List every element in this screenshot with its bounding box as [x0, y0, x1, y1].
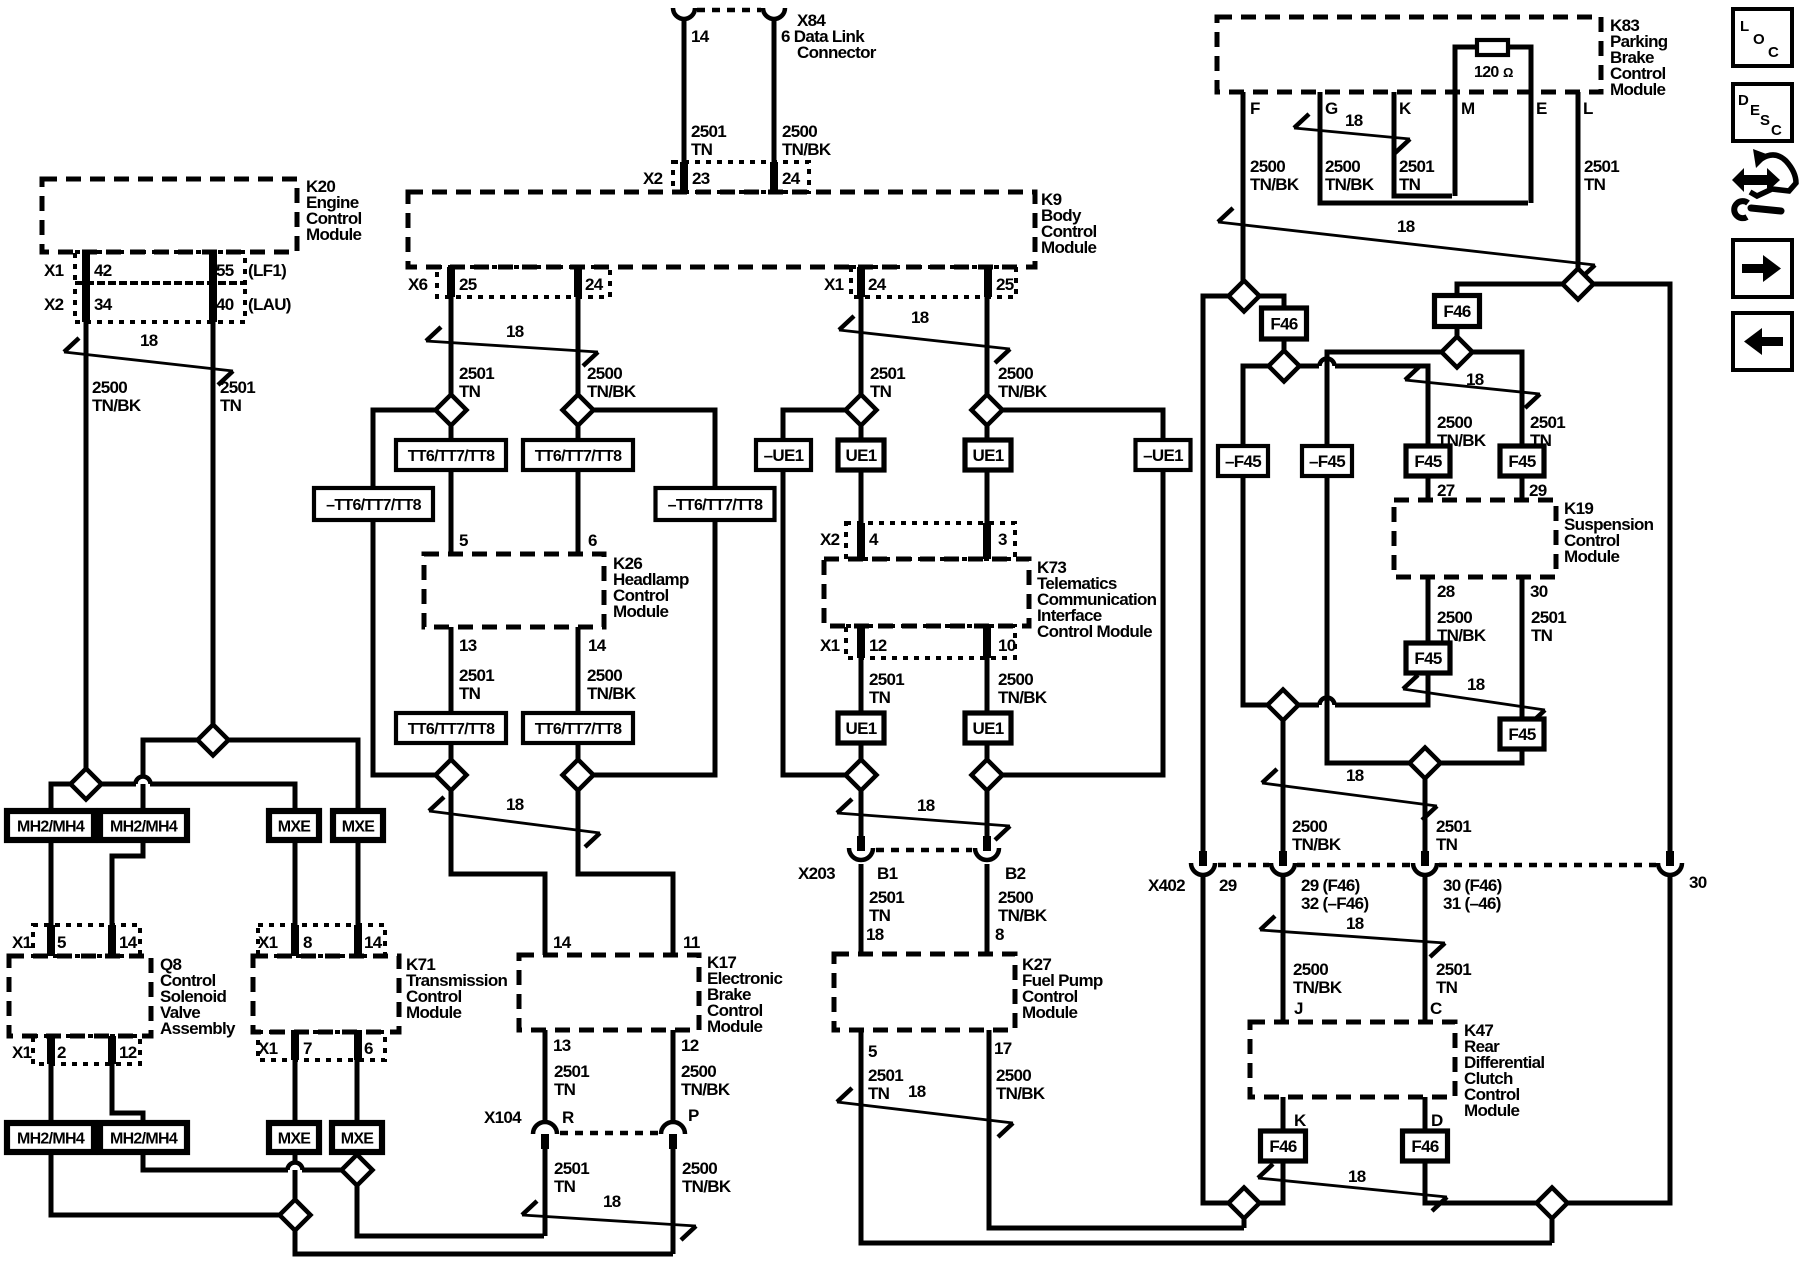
svg-text:12: 12	[681, 1036, 699, 1055]
wire 2500 TN/BK K83-F to splice T1	[1241, 92, 1246, 281]
svg-text:F45: F45	[1414, 649, 1441, 668]
wire T3 right to F45 box4	[1472, 352, 1522, 446]
wire F46 to T8	[1259, 1160, 1283, 1203]
svg-text:25: 25	[996, 275, 1014, 294]
X84 connector dashed link	[697, 8, 761, 13]
connector code MH2/MH4 (1)	[7, 811, 94, 840]
wire K83-K to M jog	[1394, 92, 1452, 196]
svg-text:18: 18	[506, 322, 524, 341]
svg-text:F46: F46	[1411, 1137, 1438, 1156]
svg-text:30: 30	[1530, 582, 1548, 601]
wire K71-7 to MXE lower1	[293, 1060, 298, 1123]
wire X104-R to bus A	[543, 1149, 548, 1236]
wire X402 to K47-J	[1281, 877, 1286, 1022]
wire MXE2 to K71 pin 14	[356, 840, 361, 956]
wire X203-B2 to K27-8	[985, 864, 990, 954]
svg-text:28: 28	[1437, 582, 1455, 601]
pin tick 34	[82, 283, 90, 322]
svg-text:TT6/TT7/TT8: TT6/TT7/TT8	[408, 448, 495, 465]
wire gauge 18 slash K83 F-L	[1218, 222, 1595, 265]
wire 2500 TN/BK from K20 X1-42	[84, 322, 89, 769]
connector code F46 (3l)	[1261, 1131, 1306, 1161]
connector code F45 (3)	[1406, 643, 1450, 673]
X203 connector dashed link	[876, 848, 972, 853]
wire 2501 TN K26-13	[449, 627, 454, 714]
connector code F45 (1)	[1406, 446, 1450, 476]
svg-text:TT6/TT7/TT8: TT6/TT7/TT8	[535, 721, 622, 738]
svg-text:10: 10	[998, 636, 1016, 655]
K9 connector X1 pin box	[851, 267, 1016, 297]
wire gauge 18 slash K47 lower	[1258, 1178, 1447, 1197]
svg-text:X1: X1	[44, 261, 64, 280]
svg-text:D: D	[1738, 92, 1749, 109]
svg-text:F: F	[1250, 99, 1260, 118]
svg-text:30: 30	[1689, 873, 1707, 892]
svg-text:12: 12	[119, 1043, 137, 1062]
svg-text:55: 55	[216, 261, 234, 280]
svg-text:23: 23	[692, 169, 710, 188]
module K26 Headlamp Control Module	[424, 554, 604, 627]
wire splice branch left TT loop	[373, 410, 435, 489]
wire -F45 box2 to T5	[1327, 474, 1410, 763]
svg-text:40: 40	[216, 295, 234, 314]
svg-text:X2: X2	[44, 295, 64, 314]
svg-text:L: L	[1740, 18, 1749, 35]
wire hop at (1327,705)	[1320, 698, 1335, 705]
inline connector X402-30	[1666, 851, 1674, 866]
pin tick 2	[47, 1036, 55, 1064]
wire gauge 18 slash F45 lower	[1403, 689, 1545, 710]
connector code MH2/MH4 (4)	[100, 1123, 187, 1152]
svg-text:Connector: Connector	[797, 43, 877, 62]
connector code UE1 (2)	[965, 440, 1011, 470]
wire TT6 box to K26 pin 6	[576, 470, 581, 554]
wire UE splice left loop	[783, 410, 845, 440]
splice diamond 2501 TN UE upper	[846, 395, 877, 426]
svg-text:18: 18	[911, 308, 929, 327]
svg-text:18: 18	[1348, 1167, 1366, 1186]
splice diamond 2501 TN UE lower	[846, 760, 877, 791]
connector code MXE (2)	[333, 811, 383, 840]
Q8 bottom pin box	[33, 1036, 140, 1064]
wire D8 to X203-B2	[985, 790, 990, 838]
wire T3 left to -F45 box2	[1327, 352, 1442, 446]
svg-text:UE1: UE1	[973, 446, 1004, 465]
wire D3 to K17 pin 14	[451, 790, 545, 955]
connector code TT6/TT7/TT8 (4)	[523, 713, 633, 743]
wire UE1 to K73 X2-4	[859, 470, 864, 559]
wire F46 box2 to T3	[1455, 324, 1460, 337]
svg-text:X1: X1	[258, 933, 278, 952]
splice diamond 2501 TN A	[198, 725, 229, 756]
pin tick 4	[857, 523, 865, 559]
connector code F45 (2)	[1500, 446, 1544, 476]
wire MH2 box1 to Q8 pin 5	[49, 840, 54, 956]
module K17 Electronic Brake Control Module	[519, 955, 699, 1030]
wire splice D to bus A	[357, 1185, 544, 1236]
svg-text:F45: F45	[1508, 452, 1535, 471]
pin tick 42	[82, 252, 90, 283]
svg-text:–F45: –F45	[1309, 452, 1345, 471]
pin tick 14	[108, 925, 116, 956]
splice diamond 2500 TN/BK UE lower	[972, 760, 1003, 791]
wire F46 to T9	[1425, 1160, 1537, 1203]
wire T2 right to F45 box3 part1	[1299, 364, 1319, 369]
splice diamond T5	[1410, 748, 1441, 779]
module K83 Parking Brake Control Module	[1217, 17, 1601, 92]
wire 2501 TN K19-30	[1520, 577, 1525, 720]
module K19 Suspension Control Module	[1394, 500, 1556, 577]
wire F46 box1 to T2	[1282, 337, 1287, 351]
wire T5 to X402	[1423, 778, 1428, 851]
svg-text:11: 11	[683, 933, 700, 952]
connector code F46 (1)	[1262, 308, 1307, 339]
wire F45 box5 to T6 part1	[1335, 672, 1428, 705]
K71 bottom pin box	[258, 1032, 385, 1060]
wire splice B right to MXE1 part1	[101, 782, 136, 787]
svg-text:E: E	[1536, 99, 1547, 118]
svg-text:B2: B2	[1005, 864, 1026, 883]
wire 2501 TN from K20-55	[211, 322, 216, 725]
svg-text:120: 120	[1474, 64, 1499, 81]
svg-text:18: 18	[866, 925, 884, 944]
pin tick 7	[291, 1032, 299, 1060]
pin tick 12	[108, 1036, 116, 1064]
svg-text:E: E	[1750, 102, 1760, 119]
pin tick 55	[209, 252, 217, 283]
svg-text:29: 29	[1219, 876, 1237, 895]
svg-text:(LF1): (LF1)	[248, 261, 286, 280]
wire gauge 18 slash X402-K47	[1260, 930, 1445, 943]
svg-text:MXE: MXE	[278, 1131, 312, 1148]
svg-text:C: C	[1768, 44, 1779, 61]
wire 2501 TN K83-L to splice T4	[1576, 92, 1581, 269]
inline connector X402 29(F46)	[1279, 851, 1287, 866]
X402 connector dashed link	[1218, 863, 1656, 868]
connector code F45 (4)	[1500, 719, 1544, 749]
svg-text:MH2/MH4: MH2/MH4	[110, 1131, 178, 1148]
svg-text:–UE1: –UE1	[764, 446, 804, 465]
connector code MH2/MH4 (2)	[100, 811, 187, 840]
pin tick X1-24	[857, 267, 865, 297]
wire MH2 lower2 to splice D part2	[302, 1168, 342, 1173]
wire T8 to bus C	[1242, 1218, 1247, 1228]
svg-text:L: L	[1583, 99, 1593, 118]
inline connector X104-R	[533, 1122, 557, 1134]
svg-text:TT6/TT7/TT8: TT6/TT7/TT8	[535, 448, 622, 465]
svg-text:D: D	[1431, 1111, 1443, 1130]
K73 connector X1 pin box	[846, 626, 1015, 658]
connector code MH2/MH4 (3)	[7, 1123, 94, 1152]
pin tick 25	[447, 267, 455, 297]
pin tick 10	[983, 626, 991, 658]
wire T2 right to F45 box3 part2	[1335, 366, 1428, 446]
svg-text:5: 5	[459, 531, 468, 550]
svg-text:24: 24	[782, 169, 801, 188]
wire 2501 TN from X84-14 to K9 X2-23	[682, 18, 687, 194]
wire splice A right branch	[228, 740, 358, 811]
svg-text:X104: X104	[484, 1108, 522, 1127]
svg-text:18: 18	[1466, 370, 1484, 389]
svg-text:–TT6/TT7/TT8: –TT6/TT7/TT8	[668, 497, 764, 514]
svg-text:5: 5	[57, 933, 66, 952]
connector code -F45 (2)	[1302, 446, 1352, 476]
wire splice B left branch	[51, 784, 71, 811]
svg-text:C: C	[1430, 999, 1442, 1018]
wire D6 to UE1 box	[985, 410, 990, 440]
splice diamond T3	[1442, 337, 1473, 368]
svg-text:–UE1: –UE1	[1143, 446, 1183, 465]
connector code TT6/TT7/TT8 (3)	[396, 713, 506, 743]
wire MH2 lower1 to splice C	[51, 1152, 280, 1215]
connector X84 arc pin 6	[763, 8, 785, 19]
svg-text:4: 4	[869, 530, 879, 549]
wire splice B right to MXE1 part2	[150, 784, 295, 811]
splice diamond 2500 TN/BK B	[71, 769, 102, 800]
wire gauge 18 slash X1	[839, 330, 1010, 349]
wire gauge 18 slash K20	[64, 352, 233, 371]
svg-text:–TT6/TT7/TT8: –TT6/TT7/TT8	[326, 497, 422, 514]
svg-text:–F45: –F45	[1225, 452, 1261, 471]
wire TT6 box to K26 pin 5	[449, 470, 454, 554]
svg-text:14: 14	[364, 933, 383, 952]
svg-text:18: 18	[506, 795, 524, 814]
wire MXE lower2 to splice D	[355, 1152, 360, 1156]
svg-text:14: 14	[588, 636, 607, 655]
splice diamond T2	[1269, 351, 1300, 382]
wire gauge 18 slash TT lower	[429, 811, 600, 833]
inline connector X203-B1	[857, 836, 865, 851]
wire 2500 TN/BK K26-14	[576, 627, 581, 714]
wire gauge 18 slash UE lower	[837, 813, 1010, 826]
wire hop at (295,1170)	[288, 1163, 303, 1170]
wire X402 to K47-C	[1423, 877, 1428, 1022]
splice diamond T6	[1268, 690, 1299, 721]
wire T6 to X402	[1281, 720, 1286, 851]
wire -F45 box1 to T6	[1243, 474, 1268, 705]
pin tick 24	[770, 162, 778, 192]
X104 connector dashed link	[560, 1131, 659, 1136]
wire MH2 box2 to Q8 pin 14	[112, 840, 143, 956]
svg-text:24: 24	[585, 275, 604, 294]
svg-text:18: 18	[1346, 766, 1364, 785]
svg-text:UE1: UE1	[973, 719, 1004, 738]
wire TT box to D3	[449, 742, 454, 775]
wire right TT loop lower	[594, 517, 715, 775]
svg-text:UE1: UE1	[846, 719, 877, 738]
connector code F46 (2)	[1435, 296, 1480, 327]
svg-text:18: 18	[1467, 675, 1485, 694]
pin tick 12	[857, 626, 865, 658]
K9 connector X6 pin box	[437, 267, 610, 297]
wire 2500 TN/BK from K9 X1-25	[985, 297, 990, 395]
svg-text:29 (F46)32 (–F46): 29 (F46)32 (–F46)	[1301, 876, 1368, 913]
splice diamond 2500 TN/BK C	[280, 1200, 311, 1231]
svg-text:14: 14	[691, 27, 710, 46]
pin tick X6-24	[574, 267, 582, 297]
wire T1 right to F46 box1	[1259, 296, 1284, 309]
wire 2501 TN K27-5 to bus	[861, 1030, 1552, 1243]
svg-text:K: K	[1399, 99, 1412, 118]
connector X84 arc pin 14	[673, 8, 695, 19]
svg-text:18: 18	[1397, 217, 1415, 236]
wire MXE1 to K71 pin 8	[293, 840, 298, 956]
svg-text:6: 6	[364, 1039, 373, 1058]
wire K47-K to F46 box	[1281, 1097, 1286, 1132]
wire Q8-12 to MH2 lower2	[112, 1064, 143, 1123]
svg-text:6: 6	[588, 531, 597, 550]
splice diamond 2501 TN D	[342, 1155, 373, 1186]
wire 2500 TN/BK K19-28	[1426, 577, 1431, 644]
connector code MXE (3)	[269, 1123, 319, 1152]
splice diamond 2500 TN/BK UE upper	[972, 395, 1003, 426]
svg-text:X1: X1	[258, 1039, 278, 1058]
wire F45 box4 to K19-29	[1520, 476, 1525, 500]
svg-text:MH2/MH4: MH2/MH4	[17, 819, 85, 836]
wire gauge 18 slash K27	[837, 1102, 1013, 1123]
wire UE1 to D7	[859, 742, 864, 775]
module Q8 Control Solenoid Valve Assembly	[9, 956, 151, 1036]
svg-text:F46: F46	[1443, 302, 1470, 321]
K20 pin row X1	[75, 252, 245, 283]
legend box LOC	[1733, 9, 1792, 66]
connector code TT6/TT7/TT8 (2)	[523, 440, 633, 470]
connector code -F45 (1)	[1218, 446, 1268, 476]
wire UE1 to D8	[985, 742, 990, 775]
svg-text:MXE: MXE	[342, 819, 376, 836]
splice diamond T9	[1537, 1188, 1568, 1219]
splice diamond 2500 TN/BK lower-TT	[563, 760, 594, 791]
legend box DESC	[1733, 84, 1792, 141]
wire K83-G to E jog	[1320, 92, 1528, 203]
pin tick 5	[47, 925, 55, 956]
inline connector X402 30(F46)	[1421, 851, 1429, 866]
wire K47-D to F46 box	[1423, 1097, 1428, 1132]
pin tick 6	[354, 1032, 362, 1060]
wire hop at (1327,366)	[1320, 359, 1335, 366]
svg-text:X6: X6	[408, 275, 428, 294]
wire hop at (143,784)	[136, 777, 151, 784]
connector code -UE1 right	[1136, 440, 1191, 470]
svg-text:X2: X2	[820, 530, 840, 549]
connector code UE1 (3)	[838, 713, 884, 743]
wire T2 left to -F45 box1	[1243, 366, 1269, 446]
connector code UE1 (4)	[965, 713, 1011, 743]
resistor 120 ohm	[1477, 40, 1508, 55]
wire MXE lower1 to splice C	[293, 1152, 298, 1200]
wire splice A left branch	[143, 740, 198, 811]
svg-text:P: P	[688, 1106, 699, 1125]
wire 2500 TN/BK K73-10	[985, 658, 990, 714]
wire X203-B1 to K27-18	[859, 864, 864, 954]
splice diamond T8	[1229, 1188, 1260, 1219]
K73 connector X2 pin box	[846, 523, 1015, 559]
pin tick 14	[354, 925, 362, 956]
K71 top pin box	[258, 925, 385, 956]
svg-text:34: 34	[94, 295, 113, 314]
splice diamond 2500 TN/BK upper-TT	[563, 395, 594, 426]
svg-text:14: 14	[119, 933, 138, 952]
svg-text:MH2/MH4: MH2/MH4	[110, 819, 178, 836]
svg-text:F46: F46	[1270, 315, 1297, 334]
module K9 Body Control Module	[408, 192, 1035, 267]
connector code -UE1 left	[756, 440, 811, 470]
module K73 Telematics Communication Interface Control Module	[824, 559, 1029, 626]
connector code -TT6/TT7/TT8 right	[656, 488, 775, 520]
svg-text:X1: X1	[820, 636, 840, 655]
inline connector X203-B2	[983, 836, 991, 851]
module K71 Transmission Control Module	[253, 956, 399, 1032]
svg-text:2: 2	[57, 1043, 66, 1062]
svg-text:MH2/MH4: MH2/MH4	[17, 1131, 85, 1148]
connector code TT6/TT7/TT8 (1)	[396, 440, 506, 470]
Q8 top pin box	[33, 925, 140, 956]
svg-text:30 (F46)31 (–46): 30 (F46)31 (–46)	[1443, 876, 1502, 913]
K9 connector X2 pin box	[673, 162, 809, 192]
wire splice branch right TT loop	[594, 410, 715, 489]
wire 2500 TN/BK K27-17 to bus	[989, 1030, 1244, 1228]
wire 2501 TN from K9 X6-25	[449, 297, 454, 395]
svg-text:17: 17	[994, 1039, 1012, 1058]
svg-text:24: 24	[868, 275, 887, 294]
svg-text:18: 18	[140, 331, 158, 350]
svg-text:F45: F45	[1508, 725, 1535, 744]
splice diamond T4	[1563, 269, 1594, 300]
svg-text:MXE: MXE	[278, 819, 312, 836]
svg-text:R: R	[562, 1108, 574, 1127]
svg-text:5: 5	[868, 1042, 877, 1061]
svg-text:8: 8	[303, 933, 312, 952]
wire Q8-2 to MH2 lower1	[49, 1064, 54, 1123]
pin tick 3	[983, 523, 991, 559]
wire 2500 TN/BK from K9 X6-24	[576, 297, 581, 395]
wire far right column to T9	[1567, 877, 1670, 1203]
svg-text:18: 18	[1345, 111, 1363, 130]
wire MH2 lower2 to splice D part1	[143, 1152, 288, 1170]
wire 2500 TN/BK from X84-6 to K9 X2-24	[772, 18, 777, 194]
wire D1 to TT6 box	[449, 410, 454, 440]
wire 2501 TN K73-12	[859, 658, 864, 714]
legend box back arrow	[1733, 313, 1792, 370]
wire left TT loop lower	[373, 517, 435, 775]
svg-text:42: 42	[94, 261, 112, 280]
svg-text:18: 18	[908, 1082, 926, 1101]
svg-text:7: 7	[303, 1039, 312, 1058]
svg-text:29: 29	[1529, 481, 1547, 500]
module K47 Rear Differential Clutch Control Module	[1250, 1022, 1455, 1097]
svg-text:TT6/TT7/TT8: TT6/TT7/TT8	[408, 721, 495, 738]
svg-text:18: 18	[1346, 914, 1364, 933]
pin tick X1-25	[984, 267, 992, 297]
svg-text:X203: X203	[798, 864, 835, 883]
wire 2501 TN K17-13 to X104-R	[543, 1030, 548, 1122]
svg-text:13: 13	[553, 1036, 571, 1055]
svg-text:J: J	[1294, 999, 1303, 1018]
svg-text:M: M	[1461, 99, 1475, 118]
svg-text:27: 27	[1437, 481, 1455, 500]
wire gauge 18 slash X6	[426, 341, 598, 352]
module K27 Fuel Pump Control Module	[834, 954, 1015, 1030]
K20 pin row X2	[75, 283, 245, 322]
svg-text:X1: X1	[12, 933, 32, 952]
wire F45 box3 to K19-27	[1426, 476, 1431, 500]
splice diamond 2501 TN upper-TT	[436, 395, 467, 426]
legend box forward arrow	[1733, 240, 1792, 297]
connector code MXE (1)	[269, 811, 319, 840]
wire UE right loop lower	[1002, 470, 1163, 775]
svg-text:F46: F46	[1269, 1137, 1296, 1156]
svg-text:25: 25	[459, 275, 477, 294]
